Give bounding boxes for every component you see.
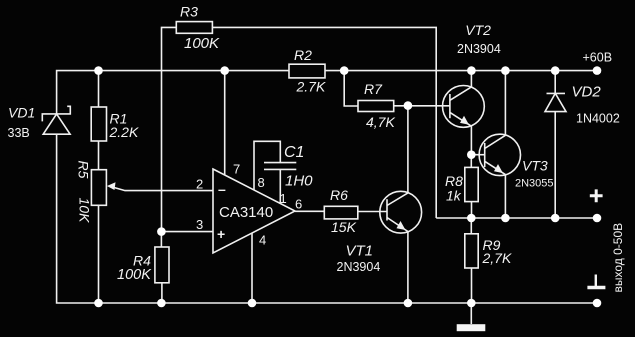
wire pin6 output to R6 [295, 210, 324, 212]
svg-text:1H0: 1H0 [285, 173, 313, 190]
wire R4 top stub [160, 232, 162, 247]
wire VT3 emitter to output rail [504, 175, 506, 218]
wire pin3 [161, 231, 213, 233]
resistor R9 2,7K [465, 234, 478, 268]
svg-text:33В: 33В [8, 126, 30, 140]
svg-text:R7: R7 [364, 81, 383, 97]
plus terminal symbol [590, 189, 603, 202]
wire R1 top stub [98, 71, 100, 107]
svg-text:–: – [218, 181, 226, 197]
svg-text:VT1: VT1 [346, 243, 374, 260]
wire R8 top stub [470, 155, 472, 168]
svg-text:2.2K: 2.2K [109, 124, 139, 140]
svg-text:R2: R2 [294, 47, 312, 63]
svg-text:3: 3 [196, 217, 203, 232]
resistor R7 4,7K [358, 101, 394, 112]
wire R3 left down to pin3 node [162, 27, 177, 231]
wire +60V rail left segment [57, 71, 289, 114]
wire R8 bottom stub [471, 202, 473, 218]
resistor R3 100K [176, 22, 212, 34]
wire R5 wiper to pin2 [111, 187, 213, 191]
transistor VT3 2N3055 [479, 134, 520, 175]
node R7 VT1 collector [404, 101, 413, 110]
svg-text:R6: R6 [330, 187, 348, 203]
wire +60V rail right segment [325, 70, 597, 72]
svg-text:4,7K: 4,7K [366, 114, 395, 130]
wire pin4 [251, 233, 253, 303]
node VT3 base R8 [467, 150, 476, 159]
svg-text:2N3055: 2N3055 [515, 178, 554, 190]
wire R4 bottom stub [161, 283, 163, 303]
wire R5 bottom stub [98, 205, 100, 303]
capacitor C1 1H0 plates [264, 163, 296, 170]
node pin3 R4 [157, 227, 166, 236]
wire VT1 collector up to R7 node [407, 106, 409, 193]
svg-text:VD1: VD1 [8, 105, 35, 121]
wire pin7 supply [224, 71, 226, 176]
svg-text:1k: 1k [446, 188, 462, 204]
potentiometer R5 wiper arrow [107, 182, 116, 190]
svg-text:+60В: +60В [583, 51, 613, 65]
wire R7 feed from rail [344, 71, 358, 106]
transistor VT1 emitter arrow [397, 221, 406, 230]
wire R7 to VT2 base [394, 105, 450, 107]
svg-text:7: 7 [233, 162, 240, 177]
wire bottom ground rail [57, 134, 597, 303]
transistor VT2 emitter arrow [460, 116, 469, 125]
resistor R8 1k [465, 167, 478, 201]
svg-text:VT3: VT3 [522, 158, 548, 174]
svg-text:10K: 10K [77, 198, 93, 224]
svg-text:2,7K: 2,7K [482, 250, 512, 266]
op-amp U1 CA3140 triangle [213, 169, 295, 253]
svg-text:R8: R8 [445, 173, 463, 189]
resistor R4 100K [155, 247, 169, 283]
minus terminal symbol [587, 275, 605, 288]
svg-text:8: 8 [258, 175, 265, 190]
ground bar [457, 324, 486, 331]
svg-text:2: 2 [196, 177, 203, 192]
wire R6 to VT1 base [358, 211, 387, 213]
svg-text:VD2: VD2 [572, 84, 602, 101]
node dots bottom rail [94, 299, 601, 308]
wire VD2 top stub [554, 71, 556, 94]
potentiometer R5 10K [91, 170, 106, 206]
svg-text:100K: 100K [184, 35, 220, 52]
svg-text:R3: R3 [180, 4, 198, 20]
wire VT2 emitter to VT3 base node [470, 126, 472, 155]
wire VT3 base [471, 154, 484, 156]
svg-text:4: 4 [259, 233, 266, 248]
svg-text:+: + [217, 226, 225, 242]
resistor R6 15K [324, 206, 358, 219]
svg-text:2.7K: 2.7K [296, 79, 326, 95]
svg-text:выход 0-50В: выход 0-50В [611, 223, 625, 293]
wire R3 right feedback to output rail [212, 27, 436, 218]
wire output plus rail [436, 217, 597, 219]
wire R9 bottom stub [471, 268, 473, 303]
wire R1 to R5 [98, 141, 100, 170]
svg-text:1: 1 [280, 191, 287, 206]
node dots top rail [94, 66, 601, 75]
svg-text:1N4002: 1N4002 [576, 112, 620, 126]
wire C1 to pin1 [279, 169, 281, 203]
svg-text:R5: R5 [76, 161, 92, 179]
svg-text:VT2: VT2 [465, 22, 491, 38]
transistor VT1 2N3904 [380, 191, 422, 233]
svg-text:100K: 100K [117, 267, 152, 283]
svg-text:2N3904: 2N3904 [337, 260, 381, 274]
node dots output rail [467, 214, 601, 223]
svg-text:2N3904: 2N3904 [457, 42, 501, 56]
diode VD2 1N4002 [545, 93, 566, 111]
svg-text:C1: C1 [284, 144, 304, 161]
svg-text:15K: 15K [331, 219, 357, 235]
zener VD1 33V [42, 106, 70, 134]
resistor R2 2.7K [289, 64, 325, 78]
transistor VT3 emitter arrow [494, 164, 503, 173]
wire VT2 collector to rail [470, 71, 472, 87]
svg-text:6: 6 [295, 197, 302, 212]
wire pin8 to C1 [254, 141, 280, 190]
wire VD2 bottom stub [554, 112, 556, 218]
ground stub [470, 303, 472, 324]
wire VT1 emitter down [407, 232, 409, 304]
svg-text:CA3140: CA3140 [219, 204, 273, 221]
transistor VT2 2N3904 [443, 86, 485, 128]
wire R9 top stub [470, 218, 472, 234]
wire VT3 collector to rail [504, 71, 506, 136]
resistor R1 2.2K [91, 107, 106, 141]
